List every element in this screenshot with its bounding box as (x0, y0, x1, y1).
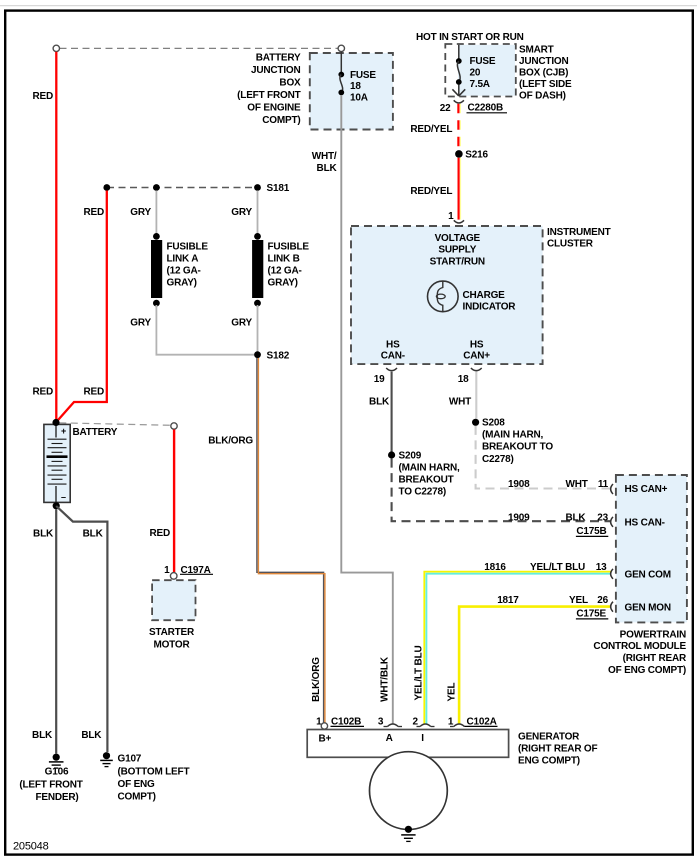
svg-text:YEL/LT BLU: YEL/LT BLU (530, 562, 585, 573)
svg-text:MOTOR: MOTOR (153, 640, 190, 651)
cluster pin 19 connector (386, 368, 397, 371)
powertrain control module box (616, 475, 687, 622)
svg-text:23: 23 (597, 513, 608, 524)
PCM pin 26 connector (611, 602, 613, 612)
battery junction box (310, 53, 393, 130)
svg-text:(RIGHT REAR: (RIGHT REAR (623, 653, 687, 664)
svg-text:YEL: YEL (569, 595, 588, 606)
svg-text:LINK B: LINK B (268, 254, 300, 265)
svg-text:BLK: BLK (369, 397, 390, 408)
svg-text:S182: S182 (267, 350, 290, 361)
svg-text:JUNCTION: JUNCTION (519, 56, 569, 67)
node S181 dashed link (107, 187, 258, 189)
svg-text:BATTERY: BATTERY (256, 53, 301, 64)
wire: GRY from link A to S182 (156, 305, 254, 355)
svg-text:S209: S209 (399, 450, 422, 461)
instrument cluster box (351, 226, 543, 364)
PCM pin 23 connector (611, 517, 613, 527)
svg-text:HS: HS (470, 339, 484, 350)
svg-text:1816: 1816 (484, 562, 506, 573)
svg-text:20: 20 (470, 68, 481, 79)
svg-text:C2280B: C2280B (468, 103, 504, 114)
wire: YEL generator to PCM GEN MON (459, 607, 611, 724)
svg-text:BOX (CJB): BOX (CJB) (519, 68, 568, 79)
svg-text:INSTRUMENT: INSTRUMENT (547, 227, 611, 238)
wire: GRY to fusible link A (155, 191, 157, 236)
wire: RED battery feed left vertical (55, 52, 57, 421)
svg-text:BLK: BLK (317, 163, 338, 174)
svg-text:RED: RED (32, 387, 53, 398)
svg-text:1: 1 (448, 211, 454, 222)
svg-text:BLK: BLK (33, 529, 54, 540)
svg-text:CLUSTER: CLUSTER (547, 239, 594, 250)
svg-text:COMPT): COMPT) (118, 792, 156, 803)
svg-text:RED/YEL: RED/YEL (410, 186, 452, 197)
svg-text:BOX: BOX (279, 78, 301, 89)
wire: top dashed supply line (60, 47, 338, 49)
svg-text:RED: RED (83, 207, 104, 218)
svg-text:HOT IN START OR RUN: HOT IN START OR RUN (416, 32, 524, 43)
svg-text:GRY: GRY (130, 318, 151, 329)
svg-text:BLK/ORG: BLK/ORG (208, 436, 253, 447)
svg-text:22: 22 (440, 103, 451, 114)
svg-text:POWERTRAIN: POWERTRAIN (620, 629, 686, 640)
svg-text:CHARGE: CHARGE (463, 290, 506, 301)
svg-text:GRY: GRY (231, 207, 252, 218)
svg-text:18: 18 (350, 81, 361, 92)
wire: RED to starter motor (173, 430, 175, 573)
svg-text:WHT: WHT (566, 479, 588, 490)
svg-text:BLK: BLK (81, 730, 102, 741)
svg-text:19: 19 (374, 374, 385, 385)
svg-text:RED: RED (149, 528, 170, 539)
node S209 (388, 451, 395, 458)
wire: BLK battery negative to G106 (55, 509, 57, 753)
svg-text:A: A (386, 733, 393, 744)
svg-text:RED/YEL: RED/YEL (410, 124, 452, 135)
fuse 20 7.5A (458, 45, 460, 61)
svg-text:FUSIBLE: FUSIBLE (167, 242, 209, 253)
svg-text:1908: 1908 (508, 479, 530, 490)
svg-text:CAN+: CAN+ (463, 351, 490, 362)
connector C2280B pin 22 (454, 100, 464, 103)
svg-text:GRY: GRY (231, 318, 252, 329)
wire: RED/YEL from S216 to cluster pin 1 (458, 158, 460, 220)
svg-text:(12 GA-: (12 GA- (167, 266, 201, 277)
svg-text:CONTROL MODULE: CONTROL MODULE (593, 641, 686, 652)
svg-text:G106: G106 (45, 766, 69, 777)
svg-text:HS CAN-: HS CAN- (625, 517, 665, 528)
svg-text:TO C2278): TO C2278) (399, 487, 446, 498)
svg-text:COMPT): COMPT) (262, 115, 300, 126)
PCM pin 13 connector (611, 569, 613, 579)
wire: BLK/ORG from S182 to generator B+ (257, 358, 324, 723)
svg-text:GRAY): GRAY) (268, 278, 298, 289)
svg-text:SUPPLY: SUPPLY (438, 245, 476, 256)
node S182 (254, 351, 261, 358)
svg-text:S181: S181 (267, 183, 290, 194)
ground G107 (103, 752, 110, 759)
svg-text:(RIGHT REAR OF: (RIGHT REAR OF (518, 743, 598, 754)
svg-text:GRY: GRY (130, 207, 151, 218)
svg-text:1: 1 (164, 565, 170, 576)
wire: GRY to fusible link B (257, 191, 259, 236)
wire: WHT dashed 1908 to PCM pin 11 (476, 426, 611, 489)
fusible link A (153, 233, 160, 240)
svg-text:BLK: BLK (32, 730, 53, 741)
svg-text:–: – (61, 492, 66, 502)
svg-text:CAN-: CAN- (381, 351, 405, 362)
svg-text:(MAIN HARN,: (MAIN HARN, (482, 430, 544, 441)
wire: GRY from link B to S182 (257, 305, 259, 352)
smart junction box (458, 45, 515, 96)
svg-text:OF ENG: OF ENG (118, 779, 156, 790)
svg-text:OF DASH): OF DASH) (519, 91, 566, 102)
svg-text:OF ENGINE: OF ENGINE (247, 103, 301, 114)
svg-text:FENDER): FENDER) (35, 792, 78, 803)
svg-text:3: 3 (378, 717, 384, 728)
svg-text:BLK: BLK (566, 513, 587, 524)
svg-text:JUNCTION: JUNCTION (251, 65, 301, 76)
svg-text:205048: 205048 (13, 841, 49, 853)
svg-text:ENG COMPT): ENG COMPT) (518, 756, 580, 767)
svg-text:INDICATOR: INDICATOR (463, 301, 517, 312)
svg-text:LINK A: LINK A (167, 254, 199, 265)
svg-text:1817: 1817 (497, 595, 519, 606)
svg-text:B+: B+ (319, 734, 332, 745)
svg-text:(12 GA-: (12 GA- (268, 266, 302, 277)
svg-text:GEN MON: GEN MON (625, 603, 671, 614)
svg-text:YEL/LT BLU: YEL/LT BLU (414, 645, 425, 700)
generator box (307, 730, 508, 758)
svg-text:7.5A: 7.5A (470, 79, 490, 90)
fuse 18 10A (340, 52, 342, 75)
wire: RED/YEL dashed from C2280B to S216 (457, 104, 459, 151)
svg-text:BLK: BLK (83, 529, 104, 540)
svg-text:13: 13 (596, 562, 607, 573)
svg-text:FUSE: FUSE (470, 56, 496, 67)
svg-text:BREAKOUT: BREAKOUT (399, 474, 454, 485)
svg-text:I: I (421, 733, 424, 744)
svg-text:WHT: WHT (449, 397, 471, 408)
starter motor box (152, 580, 195, 620)
svg-text:YEL: YEL (446, 682, 457, 701)
wire: WHT/BLK from BJB to generator A (341, 95, 393, 724)
node: hollow circle above starter (171, 423, 177, 429)
svg-text:RED: RED (32, 91, 53, 102)
svg-text:BATTERY: BATTERY (73, 427, 118, 438)
PCM pin 11 connector (611, 484, 613, 494)
wire: dashed battery to starter feed (59, 423, 170, 426)
svg-text:S208: S208 (482, 417, 505, 428)
svg-text:FUSIBLE: FUSIBLE (268, 242, 310, 253)
svg-text:GENERATOR: GENERATOR (518, 731, 580, 742)
svg-text:GEN COM: GEN COM (625, 570, 671, 581)
svg-text:+: + (61, 426, 66, 436)
svg-text:RED: RED (83, 387, 104, 398)
svg-text:STARTER: STARTER (149, 627, 195, 638)
faint top hairline (0, 5, 697, 7)
svg-text:26: 26 (597, 595, 608, 606)
wire: BLK dashed 1909 to PCM pin 23 (392, 459, 611, 522)
svg-text:BREAKOUT TO: BREAKOUT TO (482, 442, 553, 453)
svg-text:OF ENG COMPT): OF ENG COMPT) (608, 665, 686, 676)
svg-text:HS: HS (386, 339, 400, 350)
svg-text:FUSE: FUSE (350, 70, 376, 81)
svg-text:C2278): C2278) (482, 454, 514, 465)
svg-text:HS CAN+: HS CAN+ (625, 484, 668, 495)
battery (44, 424, 70, 502)
svg-text:START/RUN: START/RUN (430, 256, 485, 267)
svg-text:S216: S216 (465, 150, 488, 161)
node: hollow circle left end (53, 45, 59, 51)
wire: YEL/LT BLU generator I to PCM GEN COM (424, 572, 611, 724)
svg-text:C175B: C175B (576, 526, 606, 537)
node S216 (455, 150, 463, 158)
cluster pin 18 connector (471, 368, 482, 371)
svg-text:(LEFT FRONT: (LEFT FRONT (237, 90, 300, 101)
svg-text:10A: 10A (350, 93, 368, 104)
svg-text:VOLTAGE: VOLTAGE (435, 233, 481, 244)
svg-text:(BOTTOM LEFT: (BOTTOM LEFT (118, 766, 190, 777)
node S208 (472, 419, 479, 426)
wire: RED from S181 to battery positive (56, 191, 107, 423)
wire: WHT from pin 18 to S208 (475, 372, 477, 419)
svg-text:BLK/ORG: BLK/ORG (311, 657, 322, 702)
svg-text:WHT/: WHT/ (312, 151, 337, 162)
svg-text:18: 18 (458, 374, 469, 385)
fusible link B (254, 233, 261, 240)
generator ground (405, 826, 412, 833)
svg-text:C175E: C175E (576, 609, 606, 620)
svg-text:(MAIN HARN,: (MAIN HARN, (399, 463, 461, 474)
svg-text:11: 11 (598, 479, 609, 490)
wire: BLK battery negative to G107 (56, 506, 107, 752)
svg-text:(LEFT FRONT: (LEFT FRONT (19, 780, 82, 791)
generator body circle (370, 752, 448, 830)
svg-text:WHT/BLK: WHT/BLK (380, 656, 391, 702)
charge indicator lamp (428, 281, 459, 312)
wire: BLK from pin 19 to S209 (391, 372, 393, 452)
svg-text:SMART: SMART (519, 45, 554, 56)
ground G106 (53, 754, 60, 761)
svg-text:GRAY): GRAY) (167, 278, 197, 289)
svg-text:G107: G107 (118, 754, 142, 765)
svg-text:1909: 1909 (508, 513, 530, 524)
node: hollow circle at battery junction box top (338, 45, 344, 51)
svg-text:(LEFT SIDE: (LEFT SIDE (519, 79, 572, 90)
